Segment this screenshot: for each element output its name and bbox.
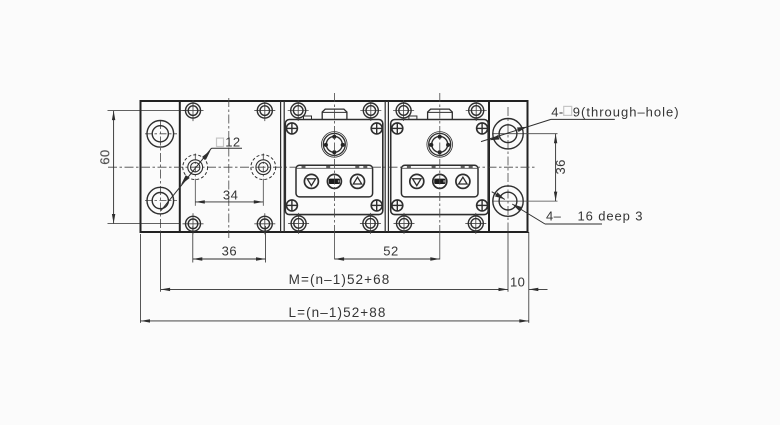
svg-text:16 deep 3: 16 deep 3 (578, 208, 644, 223)
svg-text:34: 34 (223, 187, 238, 202)
svg-text:9(through–hole): 9(through–hole) (573, 104, 680, 119)
port A dashed circle (183, 155, 208, 180)
module 1 M12 connector (322, 132, 348, 158)
left end plate top port (147, 121, 174, 148)
module 2 button panel (401, 165, 478, 197)
svg-text:12: 12 (225, 135, 240, 150)
port A centerline vertical (194, 154, 196, 206)
port B centerline vertical (262, 154, 264, 206)
svg-text:L=(n–1)52+88: L=(n–1)52+88 (288, 305, 386, 320)
module 1 base screw bottom-left (288, 213, 309, 234)
module 1 top cable gland (322, 109, 347, 119)
left ports vertical centerline (160, 120, 162, 232)
subplate screw top-left (183, 100, 204, 121)
right plate top hole (493, 119, 523, 149)
svg-text:10: 10 (510, 274, 525, 289)
label square 12 with leader (161, 135, 242, 211)
svg-text:4-: 4- (551, 104, 563, 119)
right plate bottom hole (493, 186, 523, 216)
port B dashed circle (251, 155, 276, 180)
dimension 36 screw pitch (193, 226, 266, 263)
module 1 base screw top-right (360, 100, 381, 121)
module 1 SET button (327, 174, 341, 188)
dimension L=(n-1)52+88 (141, 234, 529, 323)
module 1 button panel (296, 165, 373, 197)
dimension 52 station pitch (335, 244, 440, 261)
label 4-sq9 through-hole with leader (481, 104, 680, 141)
left bottom port horizontal centerline (145, 200, 177, 202)
left end plate bottom port (147, 187, 174, 214)
valve module 1 cover (285, 120, 383, 215)
module 2 cover screw top-left (392, 123, 403, 134)
module 2 top cable gland (428, 109, 453, 119)
svg-text:36: 36 (222, 244, 237, 259)
module 2 DOWN button (410, 174, 424, 188)
module 1 vertical centerline (334, 93, 336, 260)
module 1 top step (304, 116, 312, 120)
dimension M=(n-1)52+68 (161, 232, 508, 292)
module 2 top step (409, 116, 417, 120)
joint line subplate-module1 (281, 101, 285, 232)
subplate screw bottom-left (183, 213, 204, 234)
top hole horizontal centerline (494, 133, 558, 135)
bottom hole horizontal centerline (494, 200, 558, 202)
module 2 cover screw top-right (477, 123, 488, 134)
module 2 base screw bottom-left (394, 213, 415, 234)
svg-text:60: 60 (97, 149, 112, 164)
dimension 34 (195, 187, 263, 203)
subplate screw top-right (254, 100, 275, 121)
right end plate left edge (488, 101, 490, 232)
dimension 60 (97, 111, 186, 224)
svg-text:M=(n–1)52+68: M=(n–1)52+68 (289, 272, 391, 287)
module 1 base screw top-left (288, 100, 309, 121)
module 2 base screw top-left (393, 100, 414, 121)
module 1 cover screw top-left (286, 123, 297, 134)
horizontal centerline (108, 166, 536, 168)
valve module 2 cover (391, 120, 489, 215)
left end plate right edge (179, 101, 181, 232)
module 2 SET button (433, 174, 447, 188)
dimension 10 (510, 232, 548, 323)
right holes vertical centerline (507, 107, 509, 232)
label 4-dia16 deep 3 with leader (492, 192, 644, 224)
module 2 base screw bottom-right (465, 213, 486, 234)
module 1 cover screw top-right (371, 123, 382, 134)
module 1 cover screw bottom-right (371, 200, 382, 211)
module 2 base screw top-right (466, 100, 487, 121)
svg-text:52: 52 (383, 244, 398, 259)
module 1 DOWN button (304, 174, 318, 188)
module 2 UP button (456, 174, 470, 188)
left top port horizontal centerline (145, 133, 177, 135)
module 2 vertical centerline (439, 93, 441, 260)
svg-text:4–: 4– (546, 208, 562, 223)
manifold body outline (141, 101, 528, 232)
module 2 M12 connector (427, 132, 453, 158)
module 1 UP button (351, 174, 365, 188)
module 2 cover screw bottom-right (477, 200, 488, 211)
subplate vertical centerline (228, 98, 230, 238)
svg-text:36: 36 (553, 159, 568, 174)
dimension 36 hole pitch (553, 134, 568, 201)
module 2 cover screw bottom-left (392, 200, 403, 211)
module 1 cover screw bottom-left (286, 200, 297, 211)
joint line module1-module2 (385, 101, 388, 232)
module 1 base screw bottom-right (360, 213, 381, 234)
subplate screw bottom-right (254, 213, 275, 234)
